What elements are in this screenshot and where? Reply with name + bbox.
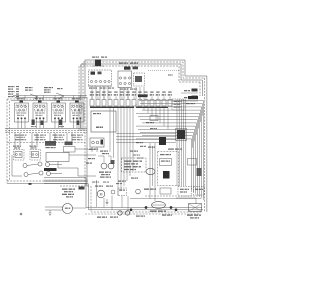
svg-text:M: M — [100, 193, 103, 197]
svg-text:MIC: MIC — [168, 73, 173, 77]
